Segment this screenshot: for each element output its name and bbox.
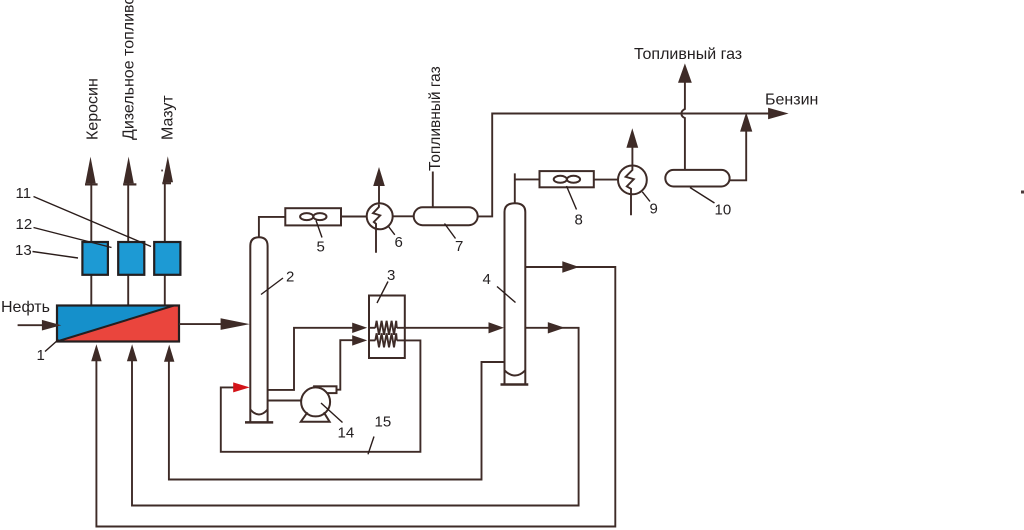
wire 7 fuel gas offtake [432,172,434,208]
separator 10 [665,170,729,187]
svg-text:Топливный газ: Топливный газ [427,66,444,171]
svg-text:6: 6 [395,234,403,251]
wire furnace outlet to column 2 [179,323,221,325]
wire column 4 overhead to 8 [515,173,540,203]
svg-text:4: 4 [483,271,491,288]
svg-text:3: 3 [387,267,395,284]
wire 5 to 6 [341,216,367,218]
wire column 2 sidedraw to exchanger 3 [268,328,353,390]
pump 14 suction wire [268,400,302,402]
cooler 6 [367,203,393,229]
svg-text:Дизельное топливо: Дизельное топливо [121,0,138,140]
furnace 1 (blue/red heater box) [57,306,179,342]
wire 10 to gasoline header [730,131,747,180]
svg-text:11: 11 [16,185,32,202]
air cooler 5 [285,208,341,225]
svg-text:1: 1 [37,347,45,364]
svg-text:Топливный газ: Топливный газ [634,46,742,63]
wire pump discharge to exchanger 3 [337,340,354,390]
svg-text:15: 15 [375,414,392,431]
svg-text:7: 7 [455,238,463,255]
column 2 (atmospheric column) [250,237,267,422]
separator 7 [414,207,478,225]
wire crude feed [18,324,43,326]
wire 8 to 9 [594,179,618,181]
svg-text:8: 8 [575,212,583,229]
svg-text:14: 14 [338,425,355,442]
wire mazut product line [164,182,166,306]
wire exchanger 3 to column 4 [397,327,489,329]
svg-text:Бензин: Бензин [765,92,818,109]
svg-text:10: 10 [715,202,732,219]
wire column 4 upper sidedraw recycle [96,267,615,527]
air cooler 8 [540,171,594,187]
wire column 4 bottoms recycle [169,361,505,480]
pump 14 [314,386,336,393]
wire kerosene product line [90,182,92,306]
svg-text:9: 9 [650,201,658,218]
heat exchanger 3 [369,296,405,359]
column 4 (stabilizer) [505,203,526,384]
wire fuel gas from separator 10 [681,83,685,170]
wire column 4 lower sidedraw recycle [132,328,579,506]
stray mark at right edge [1021,191,1024,194]
wire 6 to 7 [393,215,414,217]
svg-text:2: 2 [286,269,294,286]
svg-text:Керосин: Керосин [85,78,102,140]
svg-text:13: 13 [15,242,32,259]
wire hot loop 15 return to column 2 [221,340,421,451]
heat exchanger 11 (right blue box) [154,242,180,275]
heat exchanger 12 (middle blue box) [118,242,144,275]
red arrow into column 2 [233,382,250,392]
svg-text:5: 5 [317,239,325,256]
cooler 9 [618,166,647,195]
wire 7 to gasoline header [478,114,769,217]
heat exchanger 13 (left blue box) [82,242,108,275]
wire column 2 overhead [259,217,285,238]
svg-text:Нефть: Нефть [1,299,50,316]
svg-text:12: 12 [16,216,33,233]
svg-text:Мазут: Мазут [160,95,177,140]
wire diesel product line [127,182,129,306]
